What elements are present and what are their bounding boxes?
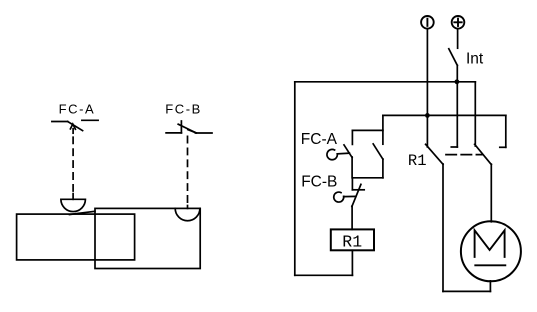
dashed actuator link FC-B — [187, 136, 189, 203]
svg-text:R1: R1 — [342, 232, 362, 251]
limit switch FC-B blade — [178, 124, 196, 133]
limit switch FC-A arrow stem — [72, 129, 74, 133]
contact seat foot (pole A right) — [451, 146, 457, 148]
terminal phase — [421, 16, 434, 29]
limit switch FC-B right fixed line — [195, 132, 212, 134]
contact FC-B blade — [352, 184, 361, 206]
limit switch FC-B (mechanical) left fixed line — [166, 132, 181, 134]
step wire down — [382, 115, 384, 144]
junction dot Int/top rail — [455, 79, 460, 84]
limit switch FC-A right fixed line — [82, 119, 98, 121]
motor M glyph — [475, 230, 505, 257]
wire from plus terminal — [457, 29, 459, 48]
mechanical link dashed — [446, 154, 482, 156]
top rail — [295, 81, 476, 83]
junction rail below parallel contacts — [352, 177, 383, 179]
coil bottom wire — [351, 250, 353, 275]
cam roller stub FC-A — [72, 194, 74, 200]
relay coil R1 box — [331, 229, 374, 250]
limit switch FC-A blade — [68, 122, 83, 131]
changeover pole A blade — [426, 144, 443, 164]
contact FC-B lower wire — [351, 206, 353, 229]
pole A wire down — [442, 164, 444, 291]
contact FC-B roller — [334, 192, 344, 202]
changeover pole B blade — [475, 144, 492, 164]
svg-text:FC-B: FC-B — [165, 101, 202, 116]
motor M1 circle — [461, 221, 521, 281]
second rail — [383, 114, 506, 116]
contact FC-B terminal — [351, 178, 353, 190]
contact seat foot (pole B right) — [500, 146, 506, 148]
cam roller dome FC-B — [175, 208, 200, 220]
junction dot phase/second rail — [425, 113, 430, 118]
svg-text:FC-A: FC-A — [59, 101, 96, 116]
limit switch FC-A (mechanical) left fixed line — [52, 121, 68, 123]
step wire across — [352, 129, 383, 131]
holding contact R1 blade — [373, 144, 383, 159]
wire rail to pole B right — [505, 115, 507, 147]
limit switch FC-B blade wedge — [188, 130, 196, 133]
fixed block rectangle — [17, 214, 135, 260]
contact FC-A terminal — [351, 130, 353, 144]
dashed actuator link FC-A — [72, 137, 74, 193]
moving carriage rectangle — [95, 208, 200, 268]
wire from phase terminal — [426, 29, 428, 147]
contact FC-B lever — [344, 195, 356, 197]
wire rail to pole B left — [474, 82, 476, 146]
contact FC-B seat bar — [352, 189, 364, 191]
svg-text:R1: R1 — [408, 152, 427, 170]
terminal plus — [452, 16, 465, 29]
limit switch FC-B fixed stub — [180, 121, 182, 133]
switch Int blade — [449, 49, 458, 66]
wire below Int — [456, 65, 458, 147]
limit switch FC-A actuation arrow — [70, 124, 75, 129]
left branch wire — [294, 82, 296, 275]
svg-text:FC-B: FC-B — [301, 173, 337, 190]
pole B wire down — [490, 164, 492, 222]
bottom left rail — [295, 274, 353, 276]
contact FC-A blade — [344, 145, 352, 158]
cam roller dome FC-A — [61, 199, 86, 211]
bottom rail to motor — [443, 290, 490, 292]
contact FC-A roller — [327, 149, 337, 159]
cam ramp — [70, 211, 95, 214]
motor underline — [475, 264, 505, 266]
svg-text:Int: Int — [466, 50, 484, 67]
contact FC-A lever — [337, 152, 349, 155]
contact FC-A lower wire — [351, 157, 353, 178]
holding contact R1 lower wire — [382, 159, 384, 178]
svg-text:FC-A: FC-A — [301, 131, 338, 148]
motor bottom stub — [489, 281, 491, 292]
